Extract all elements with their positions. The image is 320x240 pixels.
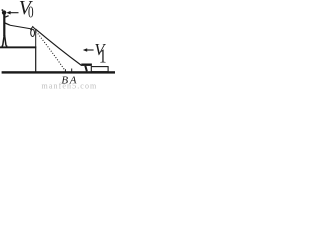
tick A — [71, 69, 73, 72]
bar at rope end — [81, 64, 92, 66]
v1 arrow — [85, 49, 94, 51]
pulley bracket — [30, 27, 35, 31]
svg-text:0: 0 — [28, 3, 34, 22]
pulley O — [31, 29, 35, 36]
ground line — [2, 71, 115, 73]
tick B — [64, 69, 66, 71]
block (cart) — [91, 67, 108, 72]
platform top — [0, 46, 36, 48]
svg-text:manfen5.com: manfen5.com — [42, 81, 98, 90]
pulley post — [35, 29, 36, 47]
person torso — [3, 14, 5, 36]
person hair — [2, 9, 4, 11]
person upper arm — [5, 16, 9, 18]
string person to pulley — [10, 25, 31, 29]
person left leg — [3, 35, 4, 45]
person head — [2, 10, 6, 14]
bar leg — [85, 66, 87, 72]
person lower arm — [5, 23, 10, 25]
v0 arrow — [10, 12, 19, 14]
svg-text:1: 1 — [99, 44, 106, 67]
person right leg — [5, 35, 6, 45]
dotted trajectory to B — [36, 32, 65, 71]
platform vertical edge — [35, 46, 36, 71]
person right foot — [6, 45, 8, 47]
string pulley to cart (solid diagonal) — [35, 29, 81, 66]
person left foot — [2, 45, 4, 47]
